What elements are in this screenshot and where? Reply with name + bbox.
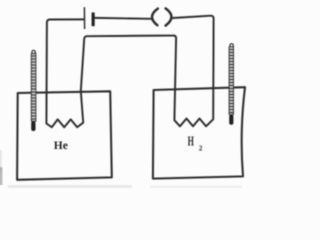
svg-text:2: 2 (199, 145, 203, 152)
svg-text:H: H (188, 134, 195, 149)
svg-text:He: He (54, 140, 68, 152)
